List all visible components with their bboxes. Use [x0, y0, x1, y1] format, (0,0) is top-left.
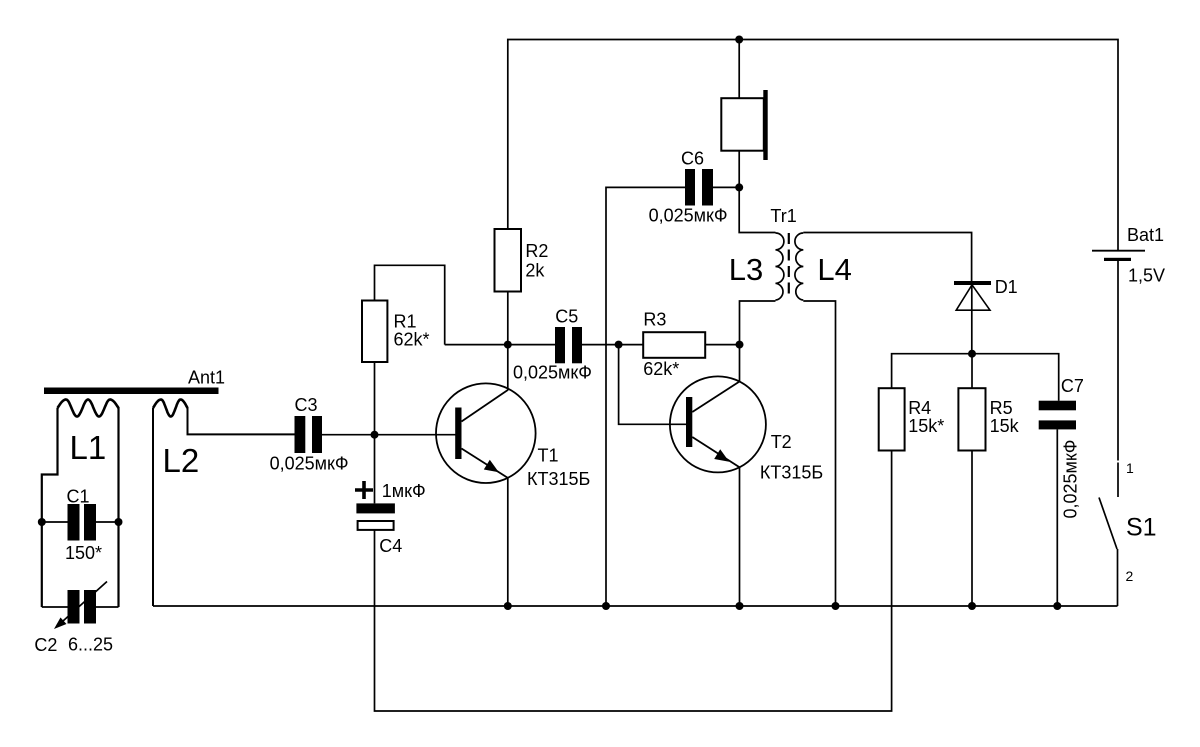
diode D1 cathode bar: [954, 281, 991, 285]
battery Bat1 short plate: [1104, 258, 1131, 261]
wire C2 left stub: [42, 606, 68, 608]
svg-text:1мкФ: 1мкФ: [382, 481, 426, 501]
svg-text:R5: R5: [990, 398, 1013, 418]
transistor T2 body: [670, 376, 766, 472]
wire speaker bottom: [738, 151, 740, 188]
transistor T1 body: [436, 383, 536, 483]
svg-text:C2: C2: [34, 635, 57, 655]
transformer Tr1 core: [788, 233, 790, 298]
wire C1 right stub: [96, 521, 119, 523]
switch S1 contact stub: [1117, 463, 1119, 498]
capacitor C3: [295, 416, 306, 453]
svg-text:C7: C7: [1061, 376, 1084, 396]
wire R3 right: [705, 344, 739, 346]
wire collector node to C5: [445, 344, 555, 346]
diode D1 triangle: [956, 285, 990, 310]
junction top rail to speaker: [735, 36, 743, 44]
svg-text:R1: R1: [394, 312, 417, 332]
resistor R3: [643, 332, 705, 358]
wire R5 top: [971, 354, 973, 389]
resistor R2: [495, 229, 522, 292]
battery Bat1 long plate: [1092, 250, 1145, 252]
wire C6 left to feedback net: [606, 187, 685, 606]
wire C2 right stub: [96, 606, 119, 608]
svg-text:150*: 150*: [65, 543, 102, 563]
wire R2 bottom to T1 collector: [507, 292, 509, 391]
wire bottom rail: [153, 605, 1118, 607]
transformer Tr1 winding L3: [776, 233, 784, 300]
junction C1 left: [38, 518, 46, 526]
resistor R4: [879, 388, 905, 450]
svg-text:КТ315Б: КТ315Б: [760, 462, 823, 482]
wire L2 left lead to rail: [152, 408, 154, 606]
speaker BA1 body: [721, 98, 764, 151]
switch S1 blade: [1099, 498, 1117, 550]
coil L2: [153, 400, 188, 417]
wire R1 top jog to collector node: [375, 265, 445, 344]
svg-text:15k: 15k: [990, 416, 1020, 436]
speaker BA1 magnet bar: [763, 90, 767, 160]
wire C3 to T1 base: [322, 434, 456, 436]
svg-text:15k*: 15k*: [908, 416, 944, 436]
junction rail feedback net: [602, 602, 610, 610]
wire C7 bottom to rail: [1056, 429, 1058, 606]
junction speaker/C6/L3 node: [735, 183, 743, 191]
junction rail R5: [968, 602, 976, 610]
resistor R5: [958, 388, 985, 450]
wire L2 right lead: [188, 407, 295, 434]
antenna Ant1: [44, 388, 219, 395]
capacitor C1: [68, 504, 80, 541]
transistor T1 emitter arrow: [484, 460, 499, 472]
svg-text:C6: C6: [681, 149, 704, 169]
junction C5/R3/T2-base node: [615, 341, 623, 349]
wire C4 bottom loop to R4: [375, 451, 892, 712]
transistor T2 emitter arrow: [714, 449, 729, 461]
svg-text:Bat1: Bat1: [1127, 225, 1164, 245]
junction rail T1 emitter: [504, 602, 512, 610]
wire speaker top: [738, 40, 740, 99]
wire C6 right: [713, 186, 739, 188]
svg-text:C5: C5: [555, 307, 578, 327]
svg-text:1: 1: [1126, 460, 1134, 476]
svg-text:C1: C1: [67, 487, 90, 507]
wire T2 base: [619, 345, 687, 425]
wire R1 bottom to base node and C4: [374, 362, 376, 503]
svg-text:L3: L3: [729, 252, 763, 287]
coil L1: [58, 400, 119, 417]
svg-text:КТ315Б: КТ315Б: [527, 469, 590, 489]
capacitor C6: [685, 169, 695, 206]
resistor R1: [362, 301, 387, 363]
svg-text:2: 2: [1126, 568, 1134, 584]
svg-text:1,5V: 1,5V: [1128, 266, 1165, 286]
svg-text:R3: R3: [643, 310, 666, 330]
transistor T1 base bar: [455, 408, 461, 460]
wire L1 right lead: [117, 407, 119, 607]
junction R3/L3/T2-collector node: [736, 341, 744, 349]
capacitor C4 plus sign: [355, 481, 373, 499]
wire switch to rail: [1117, 549, 1119, 606]
svg-text:D1: D1: [995, 277, 1018, 297]
wire L4 bottom to rail: [803, 301, 835, 606]
svg-text:C4: C4: [379, 536, 402, 556]
wire battery to switch: [1117, 261, 1119, 461]
capacitor C2 variable arrow: [58, 582, 107, 626]
svg-text:62k*: 62k*: [394, 330, 430, 350]
svg-text:0,025мкФ: 0,025мкФ: [270, 454, 349, 474]
junction T1 base node: [371, 431, 379, 439]
junction rail T2 emitter: [736, 602, 744, 610]
svg-text:0,025мкФ: 0,025мкФ: [649, 206, 728, 226]
transistor T1 collector line: [462, 390, 508, 422]
transistor T1 emitter line: [462, 449, 508, 478]
svg-text:6...25: 6...25: [68, 635, 113, 655]
junction rail C7: [1053, 602, 1061, 610]
wire C5 right to R3: [582, 344, 643, 346]
wire top rail: [508, 40, 1118, 251]
wire D1 anode down: [971, 285, 973, 354]
wire T1 emitter to rail: [507, 478, 509, 606]
wire L4 top to D1: [803, 233, 971, 282]
wire R5 bottom to rail: [971, 451, 973, 607]
svg-text:T1: T1: [538, 446, 559, 466]
svg-text:R4: R4: [908, 398, 931, 418]
capacitor C4 bottom plate: [358, 521, 394, 530]
svg-text:0,025мкФ: 0,025мкФ: [513, 363, 592, 383]
capacitor C7: [1039, 401, 1076, 411]
wire L3 top: [739, 187, 775, 232]
junction rail L4: [832, 602, 840, 610]
transistor T2 base bar: [686, 397, 692, 447]
junction C1 right: [115, 518, 123, 526]
wire C1 left stub: [42, 521, 68, 523]
svg-text:L4: L4: [817, 252, 851, 287]
wire R4/R5/C7 top node: [892, 354, 1059, 401]
svg-text:L2: L2: [163, 442, 200, 479]
svg-text:0,025мкФ: 0,025мкФ: [1061, 440, 1081, 519]
svg-text:Tr1: Tr1: [770, 206, 796, 226]
svg-text:R2: R2: [525, 241, 548, 261]
transistor T2 emitter line: [692, 437, 739, 467]
capacitor C2: [68, 590, 80, 624]
wire T2 collector: [739, 345, 741, 383]
transformer Tr1 winding L4: [795, 233, 803, 300]
junction R2/C5 node: [504, 341, 512, 349]
svg-text:T2: T2: [771, 432, 792, 452]
svg-text:S1: S1: [1126, 514, 1157, 542]
junction D1/R5 node: [968, 350, 976, 358]
wire L1 left lead: [42, 408, 58, 607]
transistor T2 collector line: [692, 382, 739, 413]
svg-text:62k*: 62k*: [643, 359, 679, 379]
svg-text:C3: C3: [295, 395, 318, 415]
svg-text:2k: 2k: [525, 261, 545, 281]
svg-text:Ant1: Ant1: [188, 368, 225, 388]
capacitor C5: [555, 327, 565, 363]
svg-text:L1: L1: [70, 429, 107, 466]
capacitor C4 top plate: [356, 503, 395, 513]
wire T2 emitter to rail: [739, 467, 741, 606]
wire L3 bottom to T2 collector node: [740, 301, 776, 345]
